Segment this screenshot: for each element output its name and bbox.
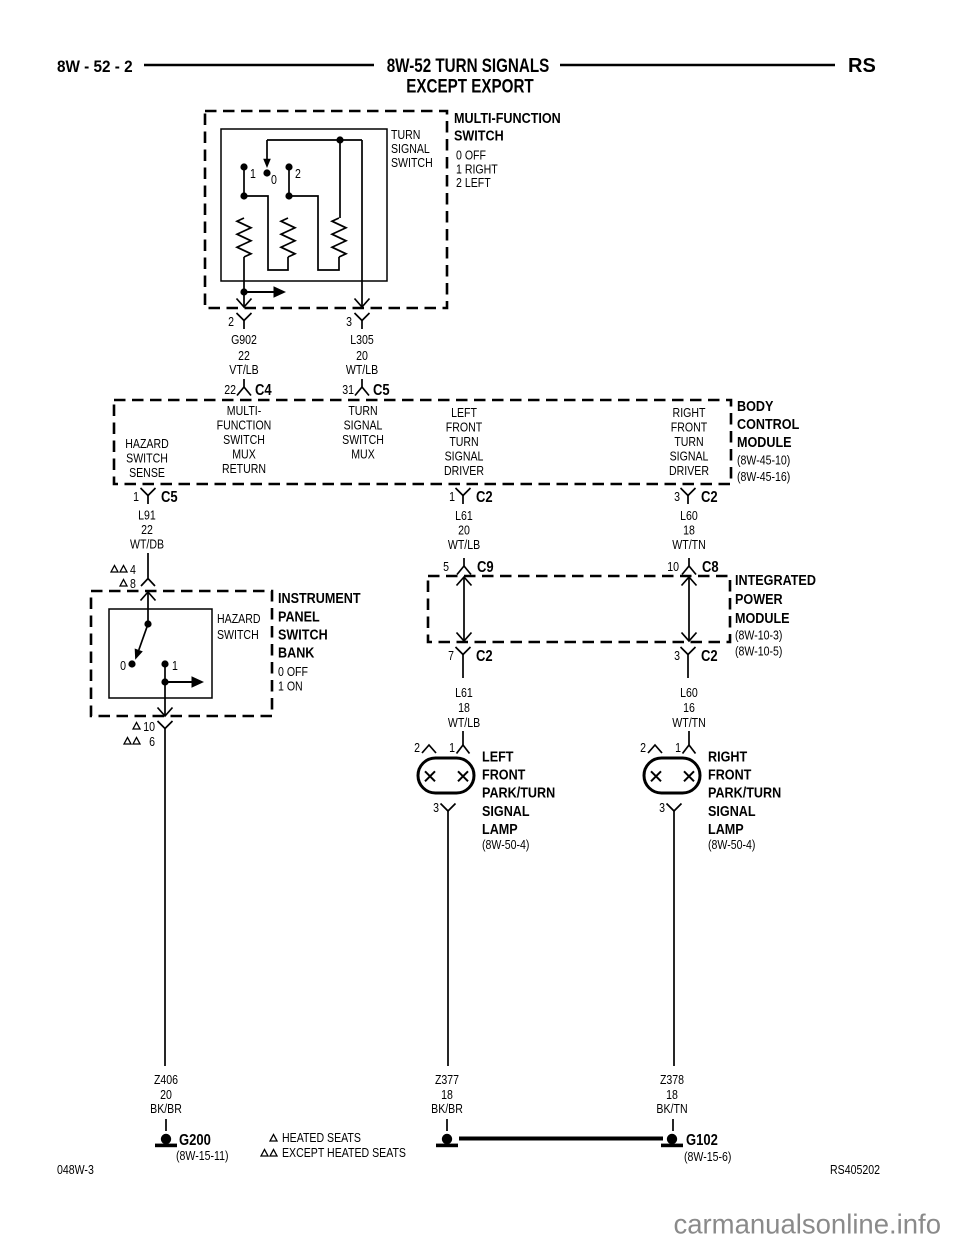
svg-text:18: 18 [666,1088,678,1102]
svg-text:G102: G102 [686,1132,718,1149]
svg-text:18: 18 [458,701,470,715]
svg-text:(8W-15-6): (8W-15-6) [684,1150,732,1164]
svg-text:3: 3 [659,801,665,815]
wire: top bus of turn signal switch [267,139,362,141]
body control module dashed box [114,400,731,484]
svg-text:22: 22 [141,523,153,537]
svg-text:L60: L60 [680,686,698,700]
integrated power module dashed box [428,576,730,642]
svg-text:HAZARD: HAZARD [217,612,260,626]
svg-text:L61: L61 [455,509,473,523]
svg-text:BANK: BANK [278,643,314,660]
hazard contact 0 [128,660,135,667]
svg-text:SIGNAL: SIGNAL [391,142,430,156]
svg-text:PARK/TURN: PARK/TURN [708,784,781,801]
svg-text:0 OFF: 0 OFF [278,665,308,679]
svg-text:MODULE: MODULE [737,433,792,450]
wire stub to G200 [165,1119,167,1131]
svg-text:20: 20 [458,524,470,538]
svg-text:31: 31 [342,383,354,397]
inline connector below switch bank [158,721,173,737]
svg-text:LEFT: LEFT [451,406,477,420]
junction dot under contact 1 [240,192,247,199]
svg-text:HEATED SEATS: HEATED SEATS [282,1131,361,1145]
wire link junction2 to R3 bottom [289,196,339,270]
svg-text:C5: C5 [373,382,390,399]
right lamp filament x right [684,771,694,781]
variant marker 10 (heated seats) [133,723,140,730]
svg-text:0: 0 [271,173,277,187]
contact 0 [263,169,270,176]
svg-text:L61: L61 [455,686,473,700]
svg-text:VT/LB: VT/LB [229,363,259,377]
wire link junction1 to R2 bottom [244,196,288,270]
svg-text:LAMP: LAMP [708,820,744,837]
svg-text:16: 16 [683,701,695,715]
exit arrowhead at switch bank edge [158,708,173,717]
wire Z377 from left lamp to ground [447,811,449,1066]
svg-text:1: 1 [133,490,139,504]
svg-text:5: 5 [443,560,449,574]
svg-text:WT/LB: WT/LB [448,538,481,552]
wiper arrow pointing right [244,286,286,298]
wire L91 down from BCM [147,553,149,578]
svg-text:20: 20 [160,1088,172,1102]
svg-text:HAZARD: HAZARD [125,437,168,451]
left lamp filament x left [425,771,435,781]
svg-text:RIGHT: RIGHT [708,747,748,764]
legend heated seats [270,1135,277,1142]
svg-text:(8W-45-16): (8W-45-16) [737,470,790,484]
svg-text:Z406: Z406 [154,1073,178,1087]
svg-text:SWITCH: SWITCH [391,156,433,170]
junction dot on hazard output [161,678,168,685]
wire contact 2 to junction [288,167,290,196]
svg-text:WT/DB: WT/DB [130,538,164,552]
svg-text:(8W-10-5): (8W-10-5) [735,645,783,659]
svg-text:C2: C2 [701,489,718,506]
ground bus to G102 [459,1137,663,1141]
svg-text:SWITCH: SWITCH [278,625,328,642]
hazard contact 1 [161,660,168,667]
svg-text:6: 6 [149,735,155,749]
svg-text:SENSE: SENSE [129,466,165,480]
svg-text:SIGNAL: SIGNAL [344,419,383,433]
svg-text:1 ON: 1 ON [278,680,303,694]
ground G200 [155,1134,177,1147]
svg-text:EXCEPT HEATED SEATS: EXCEPT HEATED SEATS [282,1146,406,1160]
svg-text:PARK/TURN: PARK/TURN [482,784,555,801]
svg-text:(8W-15-11): (8W-15-11) [176,1149,229,1163]
wire top bus to pin 3 exit [361,140,363,306]
svg-text:C4: C4 [255,382,272,399]
svg-text:C2: C2 [701,648,718,665]
left lamp wire to pin 1 [462,731,464,745]
multi-function switch dashed enclosure [205,111,447,308]
svg-text:Z378: Z378 [660,1073,684,1087]
wire R1 to pin 2 exit [243,257,245,306]
left lamp filament x right [458,771,468,781]
legend except heated seats [261,1150,277,1157]
svg-text:DRIVER: DRIVER [669,464,709,478]
svg-text:TURN: TURN [674,435,703,449]
svg-text:SIGNAL: SIGNAL [482,802,530,819]
hazard switch inner box [109,609,212,698]
svg-text:EXCEPT EXPORT: EXCEPT EXPORT [406,75,534,97]
wire stub below 3 C2 [687,663,689,678]
entry arrowhead into switch bank [141,592,156,601]
svg-text:FUNCTION: FUNCTION [217,419,272,433]
svg-text:BK/TN: BK/TN [656,1102,687,1116]
svg-text:FRONT: FRONT [708,766,752,783]
junction dot on top bus [336,136,343,143]
svg-text:CONTROL: CONTROL [737,415,800,432]
junction dot on output [240,288,247,295]
svg-text:3: 3 [674,649,680,663]
svg-text:PANEL: PANEL [278,607,320,624]
svg-text:20: 20 [356,349,368,363]
svg-text:1: 1 [172,659,178,673]
svg-text:RS405202: RS405202 [830,1163,880,1177]
svg-text:18: 18 [683,524,695,538]
svg-text:SIGNAL: SIGNAL [708,802,756,819]
svg-text:(8W-10-3): (8W-10-3) [735,629,783,643]
svg-text:WT/LB: WT/LB [448,716,481,730]
hazard wiper arrow toward contact 0 [135,624,148,660]
svg-text:INSTRUMENT: INSTRUMENT [278,589,361,606]
hazard wiper arrow pointing right [165,676,204,688]
svg-text:(8W-50-4): (8W-50-4) [482,838,530,852]
wire hazard output down [164,682,166,715]
svg-text:(8W-50-4): (8W-50-4) [708,838,756,852]
svg-text:C5: C5 [161,489,178,506]
svg-text:INTEGRATED: INTEGRATED [735,571,816,588]
svg-text:2: 2 [640,741,646,755]
svg-text:LAMP: LAMP [482,820,518,837]
svg-text:LEFT: LEFT [482,747,514,764]
svg-text:SWITCH: SWITCH [342,433,384,447]
svg-text:8W-52 TURN SIGNALS: 8W-52 TURN SIGNALS [387,54,550,76]
svg-text:RIGHT: RIGHT [673,406,706,420]
svg-text:TURN: TURN [348,404,377,418]
turn signal switch inner box [221,129,387,281]
svg-text:3: 3 [433,801,439,815]
inline connector chevron on hazard wire [141,579,155,587]
svg-text:SIGNAL: SIGNAL [445,450,484,464]
header rule left [144,64,374,67]
junction dot under contact 2 [285,192,292,199]
svg-text:2 LEFT: 2 LEFT [456,176,491,190]
svg-text:BODY: BODY [737,397,774,414]
svg-text:FRONT: FRONT [482,766,526,783]
wire Z406 from hazard switch to ground [164,737,166,1066]
svg-text:SWITCH: SWITCH [454,126,504,143]
svg-text:SIGNAL: SIGNAL [670,450,709,464]
svg-text:L60: L60 [680,509,698,523]
instrument panel switch bank dashed box [91,591,272,716]
variant marker 6 (except heated seats) [124,738,140,745]
svg-text:(8W-45-10): (8W-45-10) [737,454,790,468]
variant marker 8 (heated seats) [120,580,127,587]
svg-text:C8: C8 [702,559,719,576]
wire Z378 from right lamp to ground [673,811,675,1066]
svg-text:MUX: MUX [232,448,256,462]
resistor R3 [339,140,341,218]
svg-text:BK/BR: BK/BR [431,1102,463,1116]
wire stub below 7 C2 [462,663,464,678]
svg-text:Z377: Z377 [435,1073,459,1087]
svg-text:0 OFF: 0 OFF [456,149,486,163]
svg-text:SWITCH: SWITCH [217,628,259,642]
wire contact 1 to junction [243,167,245,196]
svg-text:carmanualsonline.info: carmanualsonline.info [673,1209,941,1240]
hazard wiper pivot dot [144,620,151,627]
contact 2 [285,163,292,170]
svg-text:10: 10 [143,720,155,734]
svg-text:2: 2 [295,167,301,181]
svg-text:DRIVER: DRIVER [444,464,484,478]
svg-text:WT/LB: WT/LB [346,363,379,377]
svg-text:SWITCH: SWITCH [223,433,265,447]
wire through IPM right with arrowheads [682,577,697,641]
wire stub to G102 [672,1119,674,1131]
resistor R1 [237,218,251,257]
svg-text:1 RIGHT: 1 RIGHT [456,163,498,177]
svg-text:TURN: TURN [449,435,478,449]
svg-text:048W-3: 048W-3 [57,1163,94,1177]
svg-text:FRONT: FRONT [446,421,482,435]
wire through IPM left with arrowheads [457,577,472,641]
svg-text:8: 8 [130,577,136,591]
wiper arrow to position 0 [263,140,271,168]
svg-text:FRONT: FRONT [671,421,707,435]
svg-text:RS: RS [848,55,876,77]
exit arrowhead pin 3 at box edge [355,299,370,308]
svg-text:1: 1 [675,741,681,755]
svg-text:WT/TN: WT/TN [672,538,705,552]
svg-text:TURN: TURN [391,128,420,142]
svg-text:WT/TN: WT/TN [672,716,705,730]
svg-text:22: 22 [238,349,250,363]
right lamp body [644,758,700,793]
svg-text:L305: L305 [350,333,374,347]
svg-text:1: 1 [250,167,256,181]
left lamp body [418,758,474,793]
variant marker 4 (except heated seats) [111,566,127,573]
svg-text:G200: G200 [179,1132,211,1149]
svg-text:3: 3 [346,315,352,329]
contact 1 [240,163,247,170]
resistor R2 [281,218,295,257]
svg-text:18: 18 [441,1088,453,1102]
svg-text:L91: L91 [138,509,156,523]
svg-text:G902: G902 [231,333,257,347]
svg-text:RETURN: RETURN [222,462,266,476]
svg-text:10: 10 [667,560,679,574]
right lamp filament x left [651,771,661,781]
svg-text:22: 22 [224,383,236,397]
svg-text:1: 1 [449,490,455,504]
svg-text:2: 2 [228,315,234,329]
svg-text:SWITCH: SWITCH [126,452,168,466]
wire contact 1 down [164,664,166,682]
svg-text:MULTI-FUNCTION: MULTI-FUNCTION [454,109,561,126]
svg-text:C9: C9 [477,559,494,576]
svg-text:C2: C2 [476,648,493,665]
svg-text:1: 1 [449,741,455,755]
svg-text:POWER: POWER [735,590,783,607]
svg-text:7: 7 [448,649,454,663]
svg-text:C2: C2 [476,489,493,506]
wire into hazard switch [147,592,149,624]
right lamp wire to pin 1 [688,731,690,745]
wire stub to ground [446,1119,448,1131]
ground at Z377 [436,1134,458,1147]
svg-text:2: 2 [414,741,420,755]
svg-text:MULTI-: MULTI- [227,404,262,418]
svg-text:BK/BR: BK/BR [150,1102,182,1116]
svg-text:8W - 52 - 2: 8W - 52 - 2 [57,57,133,76]
svg-text:0: 0 [120,659,126,673]
svg-text:3: 3 [674,490,680,504]
svg-text:MUX: MUX [351,448,375,462]
ground G102 [661,1134,683,1147]
svg-text:MODULE: MODULE [735,609,790,626]
exit arrowhead pin 2 at box edge [237,299,252,308]
svg-text:4: 4 [130,563,136,577]
header rule right [560,64,835,67]
